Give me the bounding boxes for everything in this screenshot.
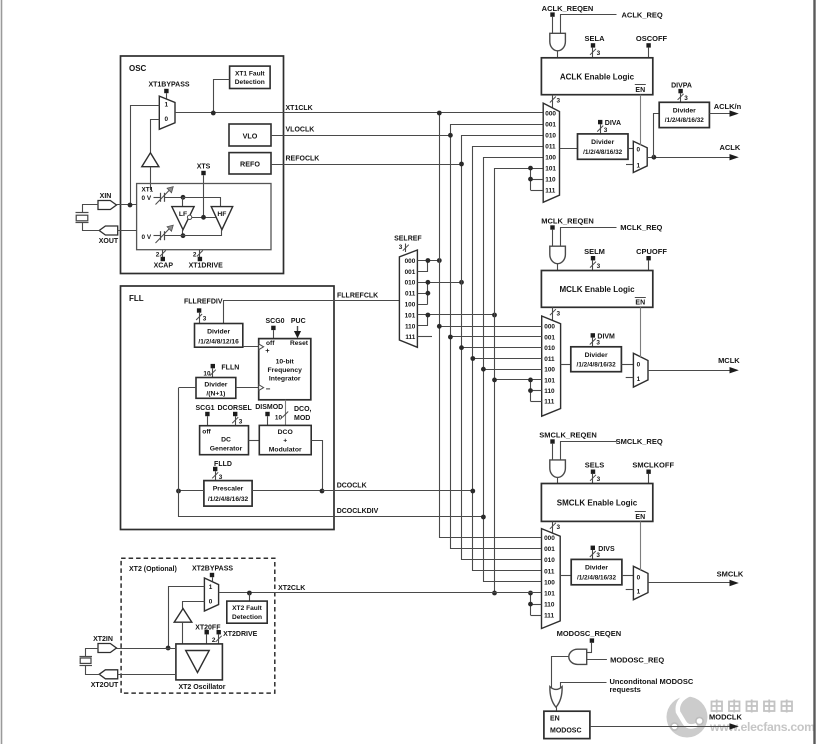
XT1DRIVE input pin: [189, 250, 224, 270]
wire FLLN divider input: [179, 387, 197, 389]
SCG1 input: [196, 405, 215, 426]
watermark text: [709, 700, 815, 735]
svg-text:SMCLK_REQ: SMCLK_REQ: [616, 437, 663, 446]
crystal XT2: [80, 649, 100, 675]
svg-text:MODOSC: MODOSC: [550, 728, 582, 735]
svg-text:DIVPA: DIVPA: [671, 83, 692, 90]
DCORSEL select input: [218, 405, 253, 426]
svg-text:111: 111: [544, 613, 554, 620]
svg-text:100: 100: [544, 579, 555, 586]
svg-text:MODCLK: MODCLK: [709, 713, 742, 722]
svg-text:3: 3: [557, 98, 561, 105]
svg-text:SELM: SELM: [584, 247, 605, 256]
MODOSC_REQEN input: [557, 629, 622, 653]
svg-text:1: 1: [637, 589, 641, 596]
svg-text:DISMOD: DISMOD: [255, 404, 283, 411]
svg-text:MOD: MOD: [294, 415, 310, 422]
wire SMCLK gate stub 1: [626, 589, 634, 591]
mux SMCLK gate 01: [633, 566, 648, 599]
wire prescaler input right: [252, 490, 322, 492]
svg-text:MCLK: MCLK: [718, 356, 740, 365]
svg-text:1: 1: [637, 376, 641, 383]
node SELREF 101 tie junction: [426, 313, 431, 318]
node MCLK tie 110: [528, 388, 533, 393]
XT2 block outline dashed: [121, 558, 275, 693]
svg-text:−: −: [266, 385, 271, 394]
wire LF apex down: [182, 230, 184, 236]
node SELREF 101 bus junction: [492, 313, 497, 318]
svg-text:REFOCLK: REFOCLK: [286, 155, 320, 162]
svg-text:+: +: [265, 346, 270, 355]
wire SMCLK mux output: [560, 575, 571, 577]
svg-text:0: 0: [637, 575, 641, 582]
svg-text:011: 011: [405, 291, 416, 298]
svg-text:XT2IN: XT2IN: [93, 636, 113, 643]
node XT2CLK fault junction: [247, 591, 252, 596]
svg-text:Frequency: Frequency: [268, 367, 303, 374]
wire REFOCLK: [271, 155, 462, 164]
FLLREFDIV select input: [184, 299, 223, 324]
PUC reset input arrow: [291, 318, 306, 338]
wire MCLK EN: [640, 307, 642, 357]
node XIN pad junction: [128, 203, 133, 208]
wire MCLK 101 tie: [531, 380, 542, 402]
svg-text:3: 3: [557, 524, 561, 531]
XT1 pin labels: [142, 187, 154, 203]
watermark logo elecfans: [667, 694, 708, 738]
wire ACLK gate stub 1: [626, 164, 633, 166]
svg-text:MCLK Enable Logic: MCLK Enable Logic: [559, 285, 635, 294]
svg-text:1: 1: [637, 162, 641, 169]
or gate MODOSC: [550, 687, 562, 712]
svg-text:DIVM: DIVM: [597, 333, 615, 340]
svg-text:110: 110: [545, 177, 556, 184]
wire divider to gate mux ACLK: [628, 148, 633, 150]
svg-text:Prescaler: Prescaler: [213, 486, 244, 493]
svg-text:DCO: DCO: [278, 429, 293, 436]
svg-text:XT2DRIVE: XT2DRIVE: [223, 631, 258, 638]
svg-text:SCG1: SCG1: [196, 405, 215, 412]
wire VLOCLK: [271, 127, 450, 136]
wire ACLK 101 tie: [531, 168, 544, 190]
XT2DRIVE input: [212, 630, 258, 644]
OSCOFF input: [636, 34, 668, 58]
node ACLK output junction: [652, 155, 657, 160]
node bus VLOCLK source junction: [448, 133, 453, 138]
svg-text:EN: EN: [550, 716, 560, 723]
wire XT2 mux input 0: [183, 602, 205, 609]
wire MODOSC and output: [552, 657, 569, 688]
svg-text:011: 011: [545, 144, 556, 151]
svg-text:001: 001: [545, 121, 556, 128]
svg-text:FLLN: FLLN: [221, 364, 239, 371]
VLO oscillator box: [229, 124, 271, 146]
XT1 oscillator core inner box: [137, 184, 271, 250]
wire XOUT row to HF apex: [165, 230, 222, 236]
svg-text:0 V: 0 V: [142, 195, 152, 202]
FLLD select input: [212, 461, 232, 481]
XT2 fault detection box: [227, 601, 267, 623]
svg-text:/(N+1): /(N+1): [206, 390, 225, 397]
wire SELREF 111 stub: [417, 336, 432, 338]
HF oscillator stage: [211, 207, 233, 230]
wire MCLK mux output: [561, 364, 571, 366]
svg-text:0 V: 0 V: [142, 234, 152, 241]
wire FLLREFDIV to integrator: [243, 346, 259, 348]
svg-text:10-bit: 10-bit: [276, 359, 295, 366]
wire DCO output to DCOCLK: [312, 441, 323, 491]
wire MODOSC_REQ: [587, 655, 665, 664]
MCLK_REQEN input: [541, 217, 594, 247]
wire XT2CLK: [219, 585, 542, 593]
svg-text:XT1DRIVE: XT1DRIVE: [189, 263, 224, 270]
svg-text:ACLK/n: ACLK/n: [714, 102, 742, 111]
wire MODOSC_REQEN into gate: [587, 652, 592, 654]
svg-text:010: 010: [545, 133, 556, 140]
node SELREF 010 tie junction: [426, 280, 431, 285]
wire SMCLK 110 111 tie: [531, 593, 542, 616]
svg-text:MODOSC_REQ: MODOSC_REQ: [610, 655, 664, 664]
svg-text:XT2 (Optional): XT2 (Optional): [129, 566, 177, 573]
svg-text:111: 111: [545, 188, 555, 195]
svg-text:Divider: Divider: [591, 139, 614, 146]
svg-text:XT1: XT1: [142, 187, 154, 194]
svg-text:XT2OUT: XT2OUT: [91, 682, 119, 689]
wire FLLN divider output: [236, 387, 259, 389]
and gate MCLK request: [550, 246, 566, 270]
svg-text:000: 000: [544, 324, 555, 331]
divider FLLREFDIV box: [195, 324, 243, 348]
XT20FF input: [195, 624, 221, 644]
svg-text:SMCLK Enable Logic: SMCLK Enable Logic: [557, 499, 638, 508]
svg-text:Divider: Divider: [204, 381, 227, 388]
svg-text:DCOCLKDIV: DCOCLKDIV: [337, 508, 379, 515]
svg-text:SELS: SELS: [585, 461, 605, 470]
svg-text:requests: requests: [610, 685, 641, 694]
bus XT1CLK vertical: [440, 113, 542, 538]
wire to LF input: [182, 197, 184, 206]
node SELREF 000 tie junction: [426, 258, 431, 263]
svg-text:off: off: [202, 429, 211, 436]
LF oscillator stage: [172, 207, 194, 230]
divider MCLK box: [571, 347, 622, 372]
svg-text:001: 001: [405, 269, 416, 276]
mux ACLK gate 01: [633, 141, 647, 172]
node bus DCOCLKDIV source junction: [481, 515, 486, 520]
DIVM select input: [590, 333, 615, 347]
svg-text:MODOSC_REQEN: MODOSC_REQEN: [557, 629, 622, 638]
svg-text:XT2 Fault: XT2 Fault: [232, 605, 262, 612]
wire DCOCLK: [322, 483, 473, 491]
pad XIN: [98, 193, 117, 210]
EN MODOSC box: [544, 711, 590, 738]
XT2 oscillator box: [176, 644, 226, 691]
svg-text:DCOCLK: DCOCLK: [337, 483, 367, 490]
bus DCOCLK vertical: [473, 147, 544, 571]
wire XT1CLK: [175, 105, 543, 113]
svg-text:XTS: XTS: [197, 164, 211, 171]
OSC block outline: [121, 56, 284, 274]
svg-text:XT1CLK: XT1CLK: [286, 105, 313, 112]
svg-text:/1/2/4/8/16/32: /1/2/4/8/16/32: [665, 117, 705, 124]
wire MCLK gate stub 1: [626, 377, 634, 379]
wire DC gen to DCO: [249, 440, 260, 442]
svg-text:CPUOFF: CPUOFF: [636, 247, 667, 256]
svg-text:PUC: PUC: [291, 318, 306, 325]
svg-text:XOUT: XOUT: [99, 238, 119, 245]
svg-text:0: 0: [637, 147, 641, 154]
wire divider to gate mux MCLK: [621, 364, 633, 366]
svg-text:111: 111: [544, 399, 554, 406]
wire unconditional requests: [561, 677, 694, 694]
and gate MODOSC request: [569, 649, 587, 664]
svg-text:DCORSEL: DCORSEL: [218, 405, 253, 412]
svg-text:ACLK Enable Logic: ACLK Enable Logic: [560, 72, 635, 81]
and gate ACLK request: [550, 33, 566, 58]
wire SMCLK EN: [640, 521, 642, 570]
svg-text:10: 10: [275, 415, 283, 422]
svg-text:101: 101: [545, 166, 556, 173]
wire SELREF 010 input: [417, 282, 461, 284]
capacitor XIN 0V top: [154, 187, 184, 205]
node MCLK 011 bus junction: [470, 356, 475, 361]
ACLK enable logic box: [541, 58, 652, 95]
svg-text:XT2 Oscillator: XT2 Oscillator: [178, 684, 225, 691]
wire XT2OUT: [118, 674, 176, 676]
wire divider to gate mux SMCLK: [622, 575, 634, 577]
wire MCLK select 3: [550, 307, 561, 320]
svg-text:Detection: Detection: [235, 79, 265, 86]
wire MCLK 000 input: [439, 326, 541, 328]
svg-text:3: 3: [596, 340, 600, 347]
svg-text:100: 100: [545, 155, 556, 162]
svg-text:2: 2: [193, 251, 197, 258]
node SELREF 010 bus junction: [459, 280, 464, 285]
svg-text:/1/2/4/8/16/32: /1/2/4/8/16/32: [577, 574, 617, 581]
svg-text:DIVS: DIVS: [598, 546, 615, 553]
svg-text:010: 010: [544, 557, 555, 564]
svg-text:3: 3: [597, 263, 601, 270]
svg-text:001: 001: [544, 334, 555, 341]
svg-text:SMCLK: SMCLK: [717, 569, 744, 578]
DIVPA select input: [671, 83, 692, 103]
node XTS junction: [201, 215, 206, 220]
bus REFOCLK vertical: [462, 136, 544, 560]
wire ACLK select 3: [550, 95, 561, 108]
wire MODCLK output: [590, 713, 743, 730]
page right border: [813, 0, 815, 744]
wire MCLK 101 input: [495, 379, 542, 381]
svg-text:SELREF: SELREF: [394, 235, 422, 242]
svg-text:100: 100: [405, 302, 416, 309]
node XT1CLK fault junction: [211, 111, 216, 116]
mux MCLK gate 01: [633, 353, 648, 387]
wire ACLKn output: [709, 102, 741, 117]
svg-text:VLOCLK: VLOCLK: [286, 127, 315, 134]
svg-text:ACLK_REQEN: ACLK_REQEN: [542, 4, 594, 13]
divider ACLKn box: [659, 102, 709, 127]
wire SELREF 001 tie: [418, 261, 428, 272]
wire DCOCLKDIV: [179, 508, 484, 517]
node MCLK 100 bus junction: [481, 367, 486, 372]
mux MCLK: [542, 316, 561, 416]
bus VLOCLK vertical: [451, 125, 544, 549]
wire SMCLK select 3: [550, 521, 561, 533]
svg-text:2: 2: [212, 637, 216, 644]
wire FLLREFCLK: [224, 293, 400, 324]
mux XT1 bypass: [159, 96, 175, 129]
wire ACLK_REQ: [561, 10, 663, 33]
svg-text:REFO: REFO: [240, 160, 260, 169]
node SELREF 011 tie junction: [426, 291, 431, 296]
bus XT2CLK vertical: [495, 169, 544, 593]
XT1BYPASS select input: [148, 82, 189, 100]
wire MCLK output: [648, 356, 740, 373]
wire ACLK output: [647, 143, 741, 160]
node MCLK 000 bus junction: [437, 324, 442, 329]
node ACLK tie 101: [528, 166, 533, 171]
REFO oscillator box: [229, 153, 271, 174]
svg-text:OSC: OSC: [129, 64, 147, 73]
XT2BYPASS select input: [192, 566, 233, 582]
and gate SMCLK request: [550, 460, 566, 484]
wire SELREF 000 input: [417, 260, 439, 262]
svg-text:1: 1: [209, 584, 213, 591]
svg-text:101: 101: [405, 312, 416, 319]
svg-text:010: 010: [405, 280, 416, 287]
ACLK_REQEN input: [542, 4, 594, 33]
svg-text:SCG0: SCG0: [266, 318, 285, 325]
node SMCLK tie 101: [528, 591, 533, 596]
DIVA select input: [597, 120, 621, 134]
node bus XT2CLK source junction: [492, 591, 497, 596]
svg-text:XT2CLK: XT2CLK: [278, 585, 305, 592]
wire DCO MOD bus 10: [275, 400, 312, 426]
svg-text:1: 1: [165, 101, 169, 108]
node bus REFOCLK source junction: [459, 162, 464, 167]
svg-text:ACLK: ACLK: [719, 143, 740, 152]
svg-text:110: 110: [544, 388, 555, 395]
svg-text:XT1 Fault: XT1 Fault: [235, 70, 265, 77]
node XT2IN junction: [166, 646, 171, 651]
mux XT2 bypass: [204, 578, 218, 611]
XTS select input: [197, 164, 211, 218]
svg-text:SMCLKOFF: SMCLKOFF: [632, 461, 674, 470]
svg-text:010: 010: [544, 345, 555, 352]
node XIN internal junction: [181, 195, 186, 200]
wire MCLK 001 input: [450, 336, 541, 338]
SELM select input: [584, 247, 605, 271]
SCG0 input: [266, 318, 285, 339]
node ACLK tie 110: [528, 177, 533, 182]
svg-text:EN: EN: [635, 300, 645, 307]
svg-text:Divider: Divider: [585, 565, 608, 572]
node bus DCOCLK source junction: [470, 489, 475, 494]
mux ACLK: [543, 103, 559, 202]
svg-text:101: 101: [544, 590, 555, 597]
svg-text:110: 110: [405, 323, 416, 330]
wire MCLK_REQ: [561, 223, 663, 246]
svg-text:/1/2/4/8/16/32: /1/2/4/8/16/32: [577, 362, 617, 369]
node MCLK 001 bus junction: [448, 335, 453, 340]
svg-text:LF: LF: [179, 211, 187, 218]
svg-text:101: 101: [544, 377, 555, 384]
mux SELREF: [394, 235, 422, 347]
node MCLK tie 101: [528, 378, 533, 383]
svg-text:0: 0: [637, 362, 641, 369]
wire SELREF 011 100 tie: [418, 283, 428, 305]
svg-text:Divider: Divider: [207, 329, 230, 336]
wire to HF input: [183, 198, 221, 207]
FLL block outline: [121, 286, 335, 530]
svg-text:Reset: Reset: [290, 340, 309, 347]
wire SELREF 110 tie: [418, 315, 428, 326]
DISMOD input: [255, 404, 283, 426]
svg-text:011: 011: [544, 568, 555, 575]
wire prescaler output left: [179, 490, 204, 492]
svg-text:MCLK_REQEN: MCLK_REQEN: [541, 217, 594, 226]
page left border: [1, 0, 3, 744]
svg-text:000: 000: [545, 110, 556, 117]
svg-text:110: 110: [544, 602, 555, 609]
svg-text:FLLREFDIV: FLLREFDIV: [184, 299, 223, 306]
svg-text:ACLK_REQ: ACLK_REQ: [622, 10, 663, 19]
svg-text:000: 000: [544, 535, 555, 542]
svg-text:DC: DC: [221, 437, 231, 444]
svg-text:SMCLK_REQEN: SMCLK_REQEN: [539, 430, 597, 439]
svg-text:0: 0: [165, 116, 169, 123]
svg-text:Divider: Divider: [585, 352, 608, 359]
node MCLK 010 bus junction: [459, 345, 464, 350]
amplifier buffer XT1: [142, 153, 159, 190]
wire SMCLK output: [648, 569, 744, 586]
node feedback junction: [176, 489, 181, 494]
LF output bubble and XTS wire: [187, 215, 216, 219]
node SMCLK tie 110: [528, 602, 533, 607]
svg-text:/1/2/4/8/16/32: /1/2/4/8/16/32: [583, 149, 623, 156]
svg-text:EN: EN: [635, 514, 645, 521]
wire MCLK 010 input: [462, 347, 542, 349]
wire ACLK mux output: [560, 148, 578, 150]
svg-text:3: 3: [219, 474, 223, 481]
svg-text:10: 10: [203, 371, 211, 378]
wire SELREF 101 input: [417, 314, 494, 316]
svg-text:+: +: [283, 438, 287, 445]
svg-text:SELA: SELA: [584, 34, 605, 43]
svg-text:MCLK_REQ: MCLK_REQ: [620, 223, 662, 232]
SMCLK enable logic box: [541, 484, 652, 522]
SMCLK_REQEN input: [539, 430, 597, 460]
svg-text:3: 3: [684, 95, 688, 102]
MCLK enable logic box: [541, 271, 652, 308]
wire FLL feedback vertical: [178, 388, 180, 517]
svg-text:HF: HF: [217, 211, 226, 218]
integrator 10-bit frequency box U-INT: [259, 339, 311, 400]
svg-text:Detection: Detection: [232, 614, 262, 621]
svg-text:0: 0: [209, 598, 213, 605]
wire ACLK EN: [640, 95, 642, 145]
svg-text:3: 3: [597, 476, 601, 483]
svg-text:VLO: VLO: [243, 132, 258, 141]
crystal XT1: [76, 205, 100, 231]
node XOUT internal junction: [181, 233, 186, 238]
svg-text:3: 3: [597, 50, 601, 57]
divider FLLN box: [196, 378, 236, 399]
svg-text:3: 3: [604, 127, 608, 134]
svg-text:EN: EN: [635, 87, 645, 94]
SELS select input: [585, 461, 605, 484]
svg-text:XT2BYPASS: XT2BYPASS: [192, 566, 233, 573]
